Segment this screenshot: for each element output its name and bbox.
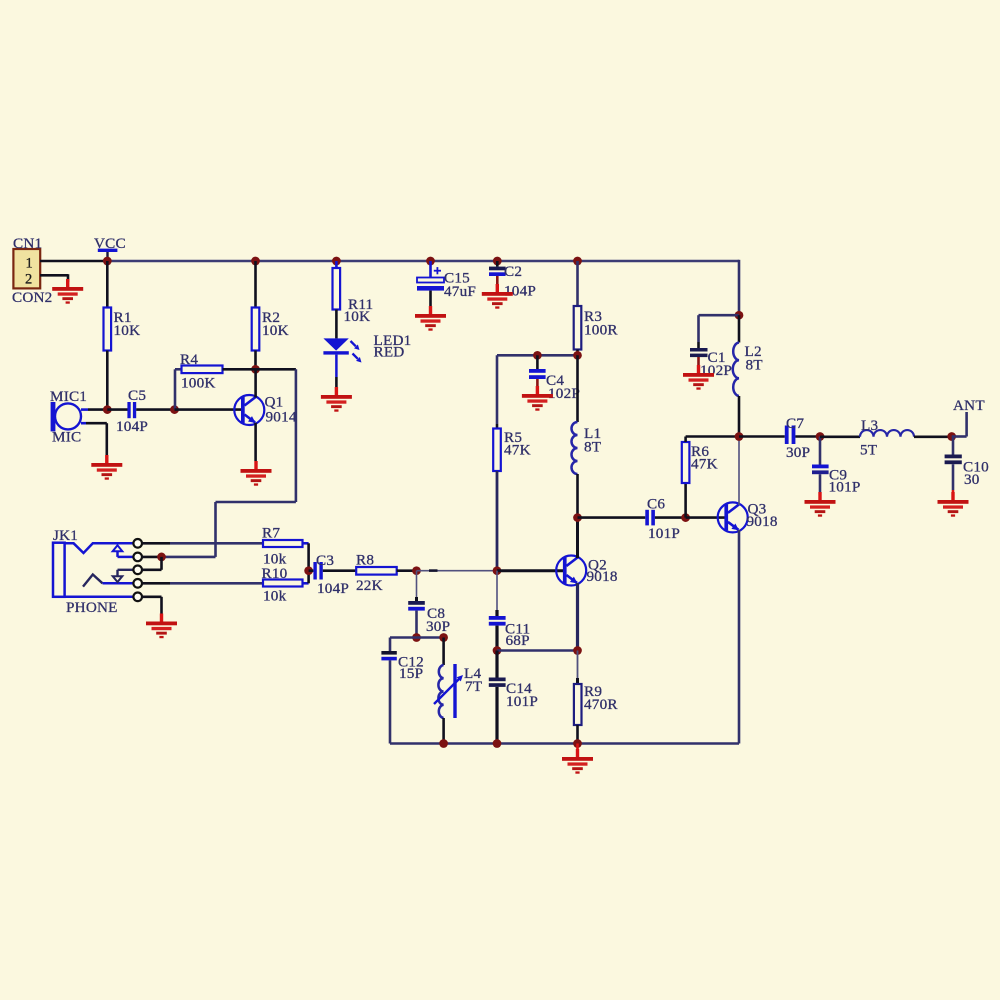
jack JK1 ring switch arrow (113, 570, 134, 582)
label LED1 RED (374, 332, 412, 361)
node C3 junction (304, 566, 313, 575)
node Q3 base junction (681, 513, 690, 522)
wire C11 to node (495, 626, 498, 651)
node ANT junction (947, 432, 956, 441)
svg-text:1: 1 (26, 256, 33, 272)
svg-text:10K: 10K (344, 308, 371, 325)
inductor L3 (860, 430, 914, 437)
svg-text:2: 2 (25, 272, 32, 288)
svg-text:C7: C7 (786, 415, 804, 432)
wire R3 bottom row (497, 355, 578, 424)
wire ground rail (390, 742, 739, 745)
wire C6 to Q3 base node (655, 516, 686, 519)
label L2 8T (745, 343, 764, 374)
wire node to C14 (495, 651, 498, 678)
wire R4 left lead (175, 369, 182, 409)
wire Q1 emitter to ground (254, 423, 257, 461)
svg-text:7T: 7T (465, 678, 483, 695)
wire R2 node to jack (162, 369, 296, 557)
jack pin 3 (133, 566, 142, 575)
svg-text:JK1: JK1 (53, 527, 78, 544)
svg-text:30P: 30P (786, 444, 810, 461)
svg-text:MIC1: MIC1 (50, 388, 87, 405)
wire Q3 collector (738, 437, 740, 506)
inductor L1 (572, 422, 578, 474)
node L4 top junction (439, 633, 448, 642)
wire node to C4 (536, 355, 539, 369)
wire Q2 base node to C11 (496, 571, 498, 616)
wire L2 to RF node (738, 396, 741, 437)
label R7 10k (262, 525, 287, 568)
wire ANT stub (952, 412, 967, 437)
svg-text:10K: 10K (114, 322, 141, 339)
node C4 junction (533, 351, 542, 360)
node Q1 base junction (170, 405, 179, 414)
resistor R4 (182, 366, 223, 374)
jack pin 5 (133, 593, 142, 602)
wire C1 to ground (697, 357, 700, 366)
wire R6 to RF node (686, 437, 739, 443)
wire L2 node to C1 (699, 315, 740, 348)
svg-text:47K: 47K (504, 442, 531, 459)
resistor R10 (263, 580, 303, 587)
label C12 15P (398, 654, 424, 683)
node Q2 collector junction (573, 513, 582, 522)
node C11 bottom junction (493, 646, 502, 655)
node C14 rail junction (493, 739, 502, 748)
label Q1 9014 (265, 394, 297, 426)
wire R7 to C3 node (303, 543, 309, 570)
svg-text:C6: C6 (647, 496, 665, 513)
svg-text:10k: 10k (263, 588, 287, 605)
svg-text:PHONE: PHONE (66, 599, 118, 616)
wire C2 to ground (496, 276, 499, 292)
svg-text:CON2: CON2 (12, 289, 52, 306)
wire R11 to LED1 (335, 310, 338, 339)
node R11 top junction (332, 257, 341, 266)
wire MIC node to C5 (107, 408, 127, 411)
wire jack pin5 to ground (142, 597, 162, 614)
svg-text:R4: R4 (180, 351, 198, 368)
svg-text:22K: 22K (356, 577, 383, 594)
resistor R6 (682, 442, 690, 483)
node jack junction (157, 553, 166, 562)
label R6 47K (691, 443, 718, 473)
capacitor C4 (529, 369, 546, 379)
wire tank to C12 (389, 638, 392, 652)
wire node to R9 (577, 651, 579, 685)
label C14 101P (506, 680, 538, 710)
wire R5 to Q2 base node (496, 471, 499, 571)
label R9 470R (584, 683, 618, 713)
wire node to C3 (309, 569, 314, 572)
label JK1 (53, 527, 78, 544)
node R2 bottom junction (251, 365, 260, 374)
label C7 30P (786, 415, 810, 461)
svg-text:R8: R8 (356, 552, 374, 569)
svg-text:C3: C3 (316, 552, 334, 569)
resistor R5 (493, 429, 501, 472)
wire jack pin3 to node (142, 557, 162, 570)
svg-text:C2: C2 (504, 263, 522, 280)
node R2 top junction (251, 257, 260, 266)
label MIC (52, 429, 81, 446)
wire node to C9 (819, 437, 822, 465)
svg-text:104P: 104P (116, 418, 148, 435)
svg-text:68P: 68P (506, 632, 530, 649)
node L4 rail junction (439, 739, 448, 748)
svg-text:100R: 100R (584, 321, 618, 338)
ground MIC1 (91, 455, 122, 480)
ground C10 (938, 492, 969, 517)
wire VCC to R1 (106, 261, 109, 308)
power VCC (94, 235, 126, 261)
svg-text:CN1: CN1 (13, 235, 42, 252)
jack JK1 tip switch arrow (113, 545, 134, 557)
svg-text:101P: 101P (506, 693, 538, 710)
label L1 8T (584, 425, 602, 456)
label L4 7T (464, 665, 483, 695)
label C10 30 (963, 459, 989, 489)
svg-text:MIC: MIC (52, 429, 81, 446)
ground C9 (805, 492, 836, 517)
wire node to L4 (442, 638, 445, 666)
svg-text:10K: 10K (262, 322, 289, 339)
ground JK1 (146, 614, 177, 639)
svg-text:8T: 8T (746, 357, 764, 374)
capacitor C3 (313, 562, 322, 580)
label R2 10K (262, 309, 289, 339)
wire node to C10 (952, 437, 955, 455)
capacitor C5 (127, 402, 136, 418)
resistor R3 (574, 306, 582, 350)
capacitor C7 (785, 426, 796, 445)
capacitor C11 (489, 616, 506, 626)
wire CN1 pin1 to VCC node (40, 260, 108, 263)
jack pin 1 (133, 539, 142, 548)
svg-text:9018: 9018 (587, 568, 618, 585)
wire C11 node to emitter node (497, 649, 578, 652)
node C2 junction (493, 257, 502, 266)
wire rail to ground (576, 744, 579, 751)
capacitor C8 (408, 601, 425, 611)
node R9 top junction (573, 646, 582, 655)
wire VCC to R2 (254, 261, 257, 308)
wire R3 to node (576, 350, 579, 356)
svg-text:L3: L3 (861, 417, 878, 434)
wire VCC to R11 (335, 261, 338, 268)
label Q2 9018 (587, 557, 618, 586)
wire R8 to node (397, 569, 417, 572)
wire VCC to C15 (431, 261, 442, 278)
node L2 top junction (735, 311, 744, 320)
node R3 bottom junction (573, 351, 582, 360)
resistor R9 (574, 684, 582, 725)
transistor Q2 (556, 556, 586, 586)
inductor L4 (434, 664, 463, 718)
label CN1 (13, 235, 42, 252)
node VCC junction (103, 257, 112, 266)
label C1 102P (700, 349, 732, 379)
label R10 10k (262, 565, 288, 605)
wire bus right corner (738, 260, 741, 315)
wire C15 to ground (429, 291, 432, 306)
svg-text:104P: 104P (317, 580, 349, 597)
wire node to R6 (684, 483, 687, 518)
label C4 102P (546, 372, 580, 402)
wire MIC1 pin2 to ground (86, 423, 107, 456)
wire Q3 emitter to rail (738, 530, 741, 744)
label C11 68P (505, 621, 530, 650)
node R8 junction (412, 566, 421, 575)
svg-text:5T: 5T (860, 442, 878, 459)
svg-text:9018: 9018 (747, 513, 778, 530)
resistor R8 (356, 567, 397, 575)
wire Q2 emitter (576, 583, 579, 651)
wire jack pin2 to node (142, 556, 162, 559)
node R9 rail junction (573, 739, 582, 748)
wire node to Q2 base (497, 569, 564, 572)
wire VCC bus (107, 260, 739, 262)
node MIC junction (103, 405, 112, 414)
jack JK1 ring contact (83, 575, 133, 587)
label R5 47K (504, 429, 531, 459)
svg-text:RED: RED (374, 344, 405, 361)
label Q3 9018 (747, 501, 778, 531)
ground CON2 (52, 279, 83, 304)
capacitor C14 (489, 678, 506, 687)
wire MIC1 pin1 to node (88, 408, 107, 411)
wire node to R5 (496, 424, 499, 429)
wire jack pin4 to R10 (142, 582, 263, 585)
capacitor C15 (417, 278, 444, 291)
resistor R2 (252, 308, 260, 351)
svg-text:47K: 47K (691, 456, 718, 473)
capacitor C10 (945, 455, 962, 465)
label R11 10K (344, 296, 374, 325)
svg-text:470R: 470R (584, 696, 618, 713)
jack pin 2 (133, 553, 142, 562)
wire tank node to C6 (578, 516, 646, 519)
node R3 top junction (573, 257, 582, 266)
inductor L2 (733, 343, 739, 397)
wire node to L2 (738, 315, 741, 342)
node RF junction (735, 432, 744, 441)
capacitor C12 (381, 651, 396, 660)
label R1 10K (114, 309, 141, 339)
resistor R1 (104, 308, 112, 351)
label C9 101P (829, 467, 861, 496)
svg-text:47uF: 47uF (444, 283, 476, 300)
node C8 bottom junction (412, 633, 421, 642)
svg-text:VCC: VCC (94, 235, 126, 252)
wire C10 to ground (952, 464, 955, 495)
wire R4 to R2 node (223, 368, 256, 371)
wire Q1 collector (254, 369, 257, 397)
svg-text:R7: R7 (262, 525, 280, 542)
wire CN1 pin2 to ground (40, 274, 68, 282)
wire R10 to C3 node (303, 571, 309, 584)
ground LED1 (321, 387, 352, 412)
svg-text:30: 30 (964, 471, 980, 488)
node C15 junction (426, 257, 435, 266)
svg-text:R10: R10 (262, 565, 288, 582)
wire LED1 to ground (335, 355, 338, 388)
LED LED1 (323, 338, 361, 362)
wire node to Q1 base (175, 408, 243, 411)
wire tank top (390, 636, 444, 639)
resistor R7 (263, 540, 303, 547)
svg-text:104P: 104P (504, 283, 536, 300)
wire L1 to tank node (576, 474, 579, 518)
label L3 5T (860, 417, 878, 459)
wire C5 to base node (136, 408, 174, 411)
ground main (562, 749, 593, 774)
microphone MIC1 (51, 402, 88, 431)
wire C7 to node (795, 435, 820, 438)
wire RF node to C7 (739, 435, 785, 438)
svg-text:ANT: ANT (953, 397, 985, 414)
label R8 22K (356, 552, 383, 595)
wire node to L1 (576, 355, 579, 422)
label R3 100R (584, 308, 618, 338)
capacitor C2 (489, 267, 506, 276)
label R4 100K (180, 351, 216, 392)
resistor R11 (333, 268, 341, 310)
wire VCC to C2 (496, 261, 499, 267)
transistor Q3 (718, 502, 748, 532)
wire R8 node to Q2 base node (417, 570, 498, 572)
svg-text:15P: 15P (399, 665, 423, 682)
label ANT (953, 397, 985, 414)
capacitor C9 (812, 465, 829, 475)
label C2 104P (504, 263, 536, 300)
svg-text:101P: 101P (829, 479, 861, 496)
ground C1 (683, 365, 714, 390)
wire node to C8 (416, 571, 418, 601)
svg-text:102P: 102P (548, 385, 580, 402)
wire C8 to tank (415, 611, 418, 638)
capacitor C6 (645, 510, 655, 526)
wire C4 to ground (536, 379, 539, 388)
ground C2 (482, 284, 513, 309)
label C15 47uF (444, 270, 476, 301)
wire L3 to ANT node (914, 435, 952, 438)
transistor Q1 (234, 395, 264, 425)
svg-text:101P: 101P (648, 525, 680, 542)
connector CN1 (13, 249, 40, 288)
label C6 101P (647, 496, 680, 543)
wire C14 to rail (495, 687, 498, 744)
node C9 junction (816, 432, 825, 441)
svg-text:9014: 9014 (266, 409, 297, 426)
capacitor C1 (690, 348, 708, 357)
wire VCC to R3 (576, 261, 579, 306)
label CON2 (12, 289, 52, 306)
label MIC1 (50, 388, 87, 405)
svg-text:30P: 30P (426, 618, 450, 635)
wire jack pin1 to R7 (142, 542, 263, 545)
jack JK1 body (53, 543, 133, 597)
ground Q1 (241, 461, 272, 486)
svg-text:100K: 100K (181, 375, 216, 392)
svg-text:C5: C5 (128, 387, 146, 404)
ground C4 (522, 386, 553, 411)
label C8 30P (426, 605, 450, 635)
jack JK1 tip contact (65, 543, 134, 553)
wire L4 to rail (442, 718, 445, 744)
svg-text:8T: 8T (584, 439, 602, 456)
label C5 104P (116, 387, 148, 435)
wire R2 to base node (254, 351, 257, 370)
wire node to L3 (820, 435, 860, 438)
ground C15 (415, 306, 446, 331)
node Q2 base junction (493, 566, 502, 575)
wire R1 to mic node (106, 351, 109, 410)
wire node to Q3 base (686, 516, 725, 519)
label C3 104P (316, 552, 349, 597)
label PHONE (66, 599, 118, 616)
wire C3 to R8 (323, 569, 356, 572)
jack pin 4 (133, 579, 142, 588)
wire R9 to rail (576, 725, 579, 744)
wire Q2 collector (576, 518, 579, 558)
wire C12 to rail (389, 660, 392, 743)
wire C9 to ground (819, 474, 822, 495)
